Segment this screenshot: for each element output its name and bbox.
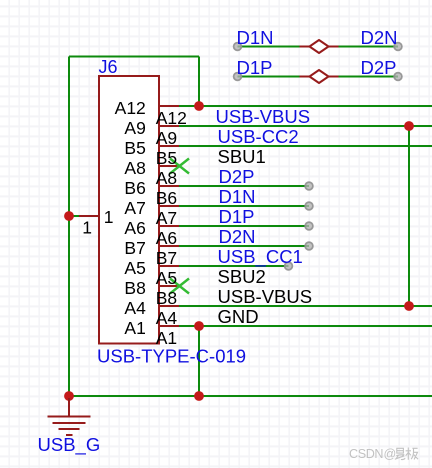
wire pin1 to left rail [69,215,79,217]
svg-text:USB-VBUS: USB-VBUS [216,106,311,127]
wire row A6 D1P [179,225,309,227]
svg-text:USB_G: USB_G [38,434,101,456]
junction at ground rail left [64,391,74,401]
svg-text:USB_CC1: USB_CC1 [218,246,303,268]
pin 1 stub left [79,215,99,217]
wire right vertical VBUS tie [408,126,410,306]
svg-text:D1P: D1P [237,57,273,78]
watermark CSDN [349,447,418,461]
svg-text:@: @ [384,447,397,461]
junction at A1/down wire [194,321,204,331]
svg-text:A1: A1 [124,318,145,338]
wire row A9 USB-VBUS [179,125,432,127]
dangling end D2N right [394,43,402,51]
pin B6 stub [159,185,179,187]
svg-text:A12: A12 [156,108,187,128]
wire top frame horizontal [69,56,199,58]
pin A8 stub [159,165,179,167]
junction right bottom VBUS [404,301,414,311]
wire bottom ground rail [69,395,432,397]
wire net D2N top right [339,46,399,48]
pin A6 stub [159,225,179,227]
svg-text:A6: A6 [124,218,145,238]
svg-text:D2N: D2N [361,27,398,48]
wire row B7 D2N [179,245,309,247]
svg-text:D2P: D2P [219,166,255,187]
svg-text:SBU1: SBU1 [218,146,266,167]
wire row A12 GND [179,105,432,107]
dangling end D2P row [305,182,313,190]
hanzi ban [406,448,418,460]
svg-text:B6: B6 [156,188,177,208]
svg-text:B6: B6 [124,178,145,198]
hanzi yi [395,448,405,459]
wire row B6 D2P [179,185,309,187]
svg-text:B7: B7 [124,238,145,258]
svg-text:GND: GND [218,306,259,327]
svg-text:1: 1 [82,218,92,238]
pin B5 stub [159,145,179,147]
svg-text:D1P: D1P [219,206,255,227]
svg-text:A5: A5 [156,268,177,288]
svg-text:SBU2: SBU2 [218,266,266,287]
svg-text:D2P: D2P [361,57,397,78]
pin B8 stub [159,285,179,287]
svg-text:A12: A12 [115,98,146,118]
svg-text:A4: A4 [124,298,146,318]
svg-text:CSDN: CSDN [349,447,383,461]
svg-text:A9: A9 [124,118,145,138]
pin A1 stub [159,325,179,327]
wire left rail vertical [68,57,70,397]
pin A9 stub [159,125,179,127]
net tie JP1 D1N-D2N [300,40,339,53]
svg-text:1: 1 [104,207,114,227]
wire row B5 USB-CC2 [179,145,432,147]
net tie JP2 D1P-D2P [300,70,339,83]
pin B7 stub [159,245,179,247]
junction right top VBUS [404,121,414,131]
wire frame right vertical to A12 [198,57,200,107]
svg-text:B5: B5 [156,148,177,168]
no-connect X on pin B8 [170,279,189,294]
svg-text:A4: A4 [156,308,178,328]
svg-text:A8: A8 [156,168,177,188]
wire row A5 USB_CC1 [179,265,289,267]
svg-text:B8: B8 [124,278,145,298]
junction at ground rail mid [194,391,204,401]
svg-text:D1N: D1N [219,186,256,207]
svg-text:A6: A6 [156,228,177,248]
svg-text:D1N: D1N [237,27,274,48]
wire row A7 D1N [179,205,309,207]
dangling end USB_CC1 row [285,262,293,270]
svg-text:A7: A7 [124,198,145,218]
wire net D2P bottom right [339,76,399,78]
wire net D1P bottom left [238,76,300,78]
connector J6 body [99,76,159,344]
pin A5 stub [159,265,179,267]
wire net D1N top left [238,46,300,48]
svg-text:USB-VBUS: USB-VBUS [218,286,313,307]
pin A7 stub [159,205,179,207]
wire row A1 GND [179,325,432,327]
dangling end D1P left [234,73,242,81]
pin A4 stub [159,305,179,307]
dangling end D1N row [305,202,313,210]
dangling end D2P right [394,73,402,81]
junction at frame/A12 [194,101,204,111]
dangling end D1N left [234,43,242,51]
junction at pin1/left rail [64,211,74,221]
svg-text:USB-TYPE-C-019: USB-TYPE-C-019 [97,346,246,367]
svg-text:B7: B7 [156,248,177,268]
dangling end D2N row [305,242,313,250]
pin A12 stub [159,105,179,107]
svg-text:B5: B5 [124,138,145,158]
svg-text:B8: B8 [156,288,177,308]
svg-text:D2N: D2N [219,226,256,247]
svg-text:A8: A8 [124,158,145,178]
svg-text:A9: A9 [156,128,177,148]
svg-text:A5: A5 [124,258,145,278]
wire A1 down to ground rail [198,326,200,396]
no-connect X on pin A8 [170,159,189,174]
dangling end D1P row [305,222,313,230]
wire row A4 USB-VBUS [179,305,432,307]
svg-text:A7: A7 [156,208,177,228]
svg-text:USB-CC2: USB-CC2 [218,126,299,147]
svg-text:J6: J6 [99,57,118,77]
ground symbol USB_G [48,398,91,435]
